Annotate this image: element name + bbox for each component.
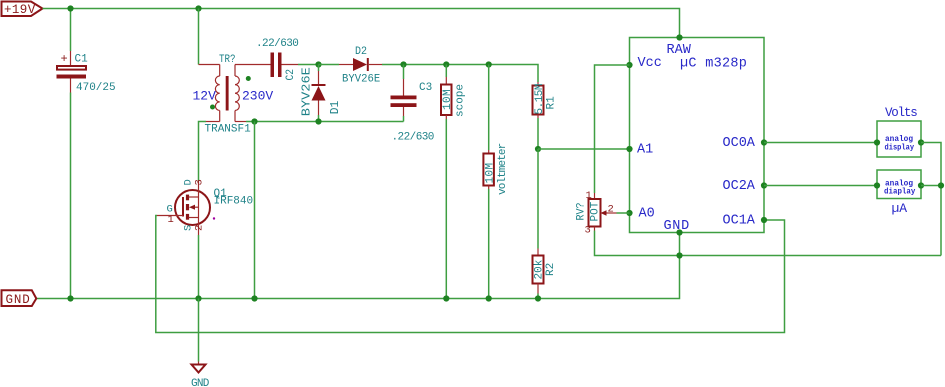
node junction GND Q1: [195, 295, 201, 301]
svg-text:A0: A0: [639, 207, 655, 222]
node pin OC0A: [761, 139, 767, 145]
svg-text:10M: 10M: [442, 89, 454, 110]
wire D2 cathode to output rail: [382, 65, 538, 83]
svg-text:µC m328p: µC m328p: [680, 57, 747, 72]
svg-text:voltmeter: voltmeter: [497, 143, 509, 195]
wire display right side to GND mid rail: [921, 143, 941, 256]
power flag GND left: [2, 290, 37, 307]
wire D1 top to D2 anode: [319, 64, 340, 66]
wire GND symbol drop: [198, 299, 200, 362]
svg-text:BYV26E: BYV26E: [300, 67, 314, 116]
wire display2 right stub: [921, 185, 941, 187]
resistor 10M scope: [441, 65, 467, 299]
capacitor C2: [256, 38, 298, 81]
node pin display1 right: [918, 139, 924, 145]
svg-text:.22/630: .22/630: [256, 38, 298, 50]
wire top rail: [43, 9, 680, 38]
svg-text:.22/630: .22/630: [392, 132, 434, 144]
svg-text:Volts: Volts: [885, 106, 917, 120]
node junction top rail transformer: [195, 5, 201, 11]
node pin display2 left: [874, 182, 880, 188]
svg-text:R1: R1: [546, 96, 558, 110]
capacitor C3: [391, 65, 434, 144]
wire Q1 gate to OC1A: [156, 216, 785, 333]
node polarity dot 12V winding: [210, 105, 215, 110]
node pin OC2A: [761, 182, 767, 188]
svg-text:3: 3: [585, 225, 591, 237]
svg-text:230V: 230V: [242, 89, 273, 104]
node pin Vcc: [626, 62, 632, 68]
sheet analog display Volts: [877, 106, 921, 157]
node junction voltmeter resistor top: [486, 61, 492, 67]
wire POT pin3 to GND mid rail: [595, 231, 942, 256]
node junction GND R2: [535, 295, 541, 301]
svg-text:5.15M: 5.15M: [534, 84, 546, 115]
svg-text:C3: C3: [419, 82, 432, 94]
svg-text:1: 1: [586, 190, 592, 202]
svg-text:2: 2: [608, 204, 614, 216]
node pin RAW: [676, 34, 682, 40]
wire transformer primary top: [198, 9, 200, 65]
svg-text:BYV26E: BYV26E: [342, 74, 381, 86]
potentiometer RV? POT: [576, 190, 617, 237]
node pin A1: [626, 146, 632, 152]
node pin A0: [626, 210, 632, 216]
wire Q1 source to GND rail: [198, 235, 200, 299]
node junction GND voltmeter: [486, 295, 492, 301]
sheet analog diaplay uA: [877, 170, 921, 216]
node junction secondary bottom: [251, 118, 257, 124]
svg-text:IRF840: IRF840: [214, 196, 254, 208]
svg-text:10M: 10M: [485, 162, 497, 183]
svg-text:20k: 20k: [534, 259, 546, 279]
node junction top rail C1: [67, 5, 73, 11]
wire divider to A1: [538, 148, 630, 150]
svg-text:OC1A: OC1A: [723, 214, 756, 229]
diode D2 BYV26E: [339, 46, 382, 86]
svg-text:+: +: [61, 52, 68, 66]
wire OC2A to display2: [764, 185, 877, 187]
resistor R2 20k: [533, 149, 558, 299]
node junction scope resistor top: [443, 61, 449, 67]
wire C1 top: [70, 9, 72, 52]
wire primary bottom to Q1 drain: [199, 122, 207, 181]
svg-text:scope: scope: [455, 84, 467, 117]
svg-text:µA: µA: [892, 201, 908, 216]
capacitor C1: [57, 51, 116, 94]
svg-text:GND: GND: [6, 293, 31, 307]
wire secondary bottom rail: [246, 121, 404, 123]
svg-text:TRANSF1: TRANSF1: [205, 124, 252, 136]
resistor 10M voltmeter: [483, 65, 509, 299]
svg-text:C2: C2: [285, 69, 297, 81]
node junction GND mid rail: [676, 252, 682, 258]
svg-text:3: 3: [194, 179, 206, 185]
wire Vcc to POT pin1: [595, 65, 630, 193]
svg-text:2: 2: [194, 225, 206, 231]
svg-text:12V: 12V: [193, 89, 217, 104]
svg-text:470/25: 470/25: [76, 82, 116, 94]
svg-text:+19V: +19V: [4, 3, 36, 17]
svg-text:OC0A: OC0A: [723, 136, 756, 151]
node pin display2 right: [918, 182, 924, 188]
wire secondary bottom down to GND rail: [254, 122, 256, 299]
svg-text:TR?: TR?: [219, 54, 236, 66]
svg-text:display: display: [885, 142, 915, 152]
wire C1 bottom to GND rail: [70, 93, 72, 299]
transformer TR? TRANSF1: [193, 54, 274, 136]
svg-text:R2: R2: [545, 263, 557, 276]
node junction divider A1: [535, 146, 541, 152]
svg-text:D1: D1: [329, 101, 342, 115]
sheet uC m328p: [630, 38, 765, 235]
svg-text:D2: D2: [355, 46, 367, 58]
svg-text:diaplay: diaplay: [884, 187, 915, 197]
wire C2 to D1 node: [298, 64, 319, 66]
svg-text:C1: C1: [75, 54, 89, 66]
node pin OC1A: [761, 217, 767, 223]
node pin GND: [676, 229, 682, 235]
node junction GND C1: [67, 295, 73, 301]
node junction C3 top: [400, 61, 406, 67]
node junction GND scope: [443, 295, 449, 301]
node junction right vertical: [938, 182, 944, 188]
wire POT wiper to A0: [617, 212, 630, 214]
svg-text:Vcc: Vcc: [638, 56, 662, 71]
node junction D1 top: [315, 61, 321, 67]
transistor Q1 IRF840: [157, 179, 253, 235]
svg-text:OC2A: OC2A: [723, 179, 756, 194]
power flag +19V: [2, 2, 43, 17]
svg-text:A1: A1: [637, 143, 653, 158]
svg-text:1: 1: [168, 214, 174, 226]
node junction GND secondary: [251, 295, 257, 301]
svg-text:GND: GND: [191, 378, 210, 387]
resistor R1 5.15M: [533, 82, 558, 149]
svg-text:POT: POT: [590, 201, 602, 221]
node pin display1 left: [874, 139, 880, 145]
node purple marker: [213, 217, 215, 219]
ground symbol: [191, 362, 210, 387]
diode D1 BYV26E: [300, 65, 343, 122]
wire GND rail: [36, 233, 679, 299]
node polarity dot 230V winding: [246, 76, 251, 81]
node junction D1 bottom: [315, 118, 321, 124]
svg-text:RV?: RV?: [576, 203, 588, 221]
wire OC0A to display1: [764, 142, 877, 144]
